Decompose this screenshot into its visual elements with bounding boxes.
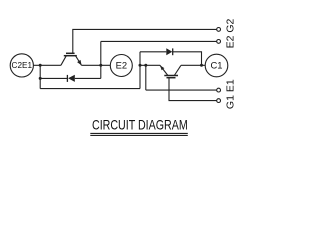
svg-text:E2: E2 bbox=[116, 60, 127, 71]
svg-text:C2E1: C2E1 bbox=[12, 61, 33, 70]
diode D1 bbox=[166, 48, 172, 55]
node junction E1 aux takeoff bbox=[144, 64, 147, 67]
diode D2 bbox=[67, 75, 74, 82]
wire D2 anode bbox=[75, 77, 101, 79]
wire C2E1 to Q2 collector bbox=[33, 64, 61, 66]
terminal C1 bbox=[205, 54, 228, 77]
node junction D1 cathode / C1 bbox=[200, 64, 203, 67]
wire E2 aux vertical bbox=[100, 41, 102, 78]
node junction at C2E1 bus top bbox=[39, 64, 42, 67]
title CIRCUIT DIAGRAM bbox=[90, 116, 188, 135]
terminal E1 aux bbox=[217, 88, 221, 92]
node junction Q2 emitter / E2 aux bbox=[99, 64, 102, 67]
transistor Q1 bbox=[160, 65, 181, 77]
wire D2 cathode bbox=[40, 77, 67, 79]
wire D1 cathode bbox=[173, 52, 202, 66]
wire C2E1 bus bottom run bbox=[40, 88, 140, 90]
terminal C2E1 bbox=[10, 54, 33, 77]
terminal G2 bbox=[217, 28, 221, 32]
wire E2 aux rail bbox=[101, 40, 217, 42]
node junction at D2 cathode wire bbox=[39, 77, 42, 80]
wire Q2 gate to G2 rail bbox=[73, 29, 217, 53]
terminal G1 bbox=[217, 99, 221, 103]
wire Q1 gate to G1 rail bbox=[169, 78, 217, 101]
wire Q1 collector to C1 terminal bbox=[181, 64, 205, 66]
node junction Q1 emitter bus bbox=[139, 64, 142, 67]
terminal E2 bbox=[110, 55, 132, 77]
wire E1 aux rail bbox=[146, 89, 217, 91]
terminal E2 aux bbox=[217, 40, 221, 44]
wire E1 aux vertical bbox=[145, 65, 147, 90]
transistor Q2 bbox=[61, 53, 82, 65]
wire Q1 emitter node bbox=[140, 64, 160, 66]
svg-text:E2 G2: E2 G2 bbox=[225, 18, 237, 48]
wire Q2 emitter to E2 terminal bbox=[82, 64, 111, 66]
svg-text:G1 E1: G1 E1 bbox=[225, 79, 237, 109]
wire D1 anode vertical bbox=[139, 52, 141, 89]
wire C2E1 bus vertical bbox=[39, 65, 41, 88]
svg-text:C1: C1 bbox=[211, 60, 223, 71]
svg-text:CIRCUIT DIAGRAM: CIRCUIT DIAGRAM bbox=[92, 116, 188, 132]
wire D1 anode top bbox=[140, 51, 166, 53]
